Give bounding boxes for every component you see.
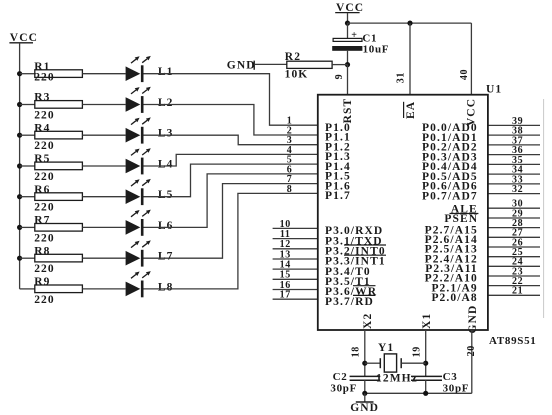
svg-text:21: 21 bbox=[512, 286, 523, 297]
svg-text:18: 18 bbox=[350, 346, 361, 357]
junction dot R2/RST bbox=[345, 62, 350, 67]
svg-text:10K: 10K bbox=[285, 69, 309, 81]
resistor R8 220 bbox=[34, 245, 82, 275]
pin 17 stub (P3.7) bbox=[273, 298, 318, 300]
pin 35 stub (P0.4/AD4) bbox=[488, 163, 540, 165]
wire X2 to Y1 bbox=[365, 362, 381, 364]
LED L6 bbox=[126, 210, 174, 236]
svg-text:220: 220 bbox=[34, 140, 55, 152]
resistor R7 220 bbox=[34, 215, 82, 245]
pin 32 stub (P0.7/AD7) bbox=[488, 193, 540, 195]
junction dot VCC rail row 2 bbox=[17, 102, 22, 107]
U1 pin names P2.7-P2.0 bbox=[425, 224, 478, 304]
wire R1 to LED L1 bbox=[82, 73, 125, 75]
svg-text:C2: C2 bbox=[333, 371, 348, 383]
resistor R9 220 bbox=[34, 276, 82, 306]
wire R9 to LED L8 bbox=[82, 288, 125, 290]
junction dot VCC rail row 7 bbox=[17, 256, 22, 261]
svg-text:31: 31 bbox=[395, 72, 406, 83]
U1 pin names P0.0-P0.7 bbox=[422, 122, 478, 202]
svg-text:220: 220 bbox=[34, 202, 55, 214]
junction dot bottom net / C3 bbox=[423, 391, 428, 396]
svg-text:P0.7/AD7: P0.7/AD7 bbox=[422, 190, 478, 202]
pin 27 stub bbox=[488, 236, 540, 238]
junction dot EA branch bbox=[407, 21, 412, 26]
svg-text:GND: GND bbox=[350, 402, 379, 414]
svg-text:220: 220 bbox=[34, 232, 55, 244]
pin 14 stub (P3.4) bbox=[273, 268, 318, 270]
resistor R6 220 bbox=[34, 184, 82, 214]
pin 30 stub bbox=[488, 207, 540, 209]
wire C2 to bottom net bbox=[364, 380, 366, 393]
wire LED L6 to U1 pin 6 bbox=[144, 174, 318, 228]
IC U1 AT89S51 body bbox=[318, 95, 488, 330]
junction dot X2/crystal bbox=[362, 361, 367, 366]
pin 37 stub (P0.2/AD2) bbox=[488, 144, 540, 146]
svg-text:L5: L5 bbox=[158, 189, 174, 201]
svg-text:R8: R8 bbox=[34, 245, 50, 257]
pin 23 stub bbox=[488, 275, 540, 277]
pin 25 stub bbox=[488, 256, 540, 258]
pin 24 stub bbox=[488, 265, 540, 267]
wire LED L3 to U1 pin 3 bbox=[144, 135, 318, 145]
LED L3 bbox=[126, 117, 174, 143]
capacitor C1 10uF (electrolytic) bbox=[332, 30, 389, 55]
svg-text:RST: RST bbox=[342, 98, 354, 124]
pin 22 stub bbox=[488, 285, 540, 287]
U1 pin name PSEN (active low) bbox=[444, 213, 478, 225]
svg-text:+: + bbox=[351, 30, 357, 41]
wire R3 to LED L2 bbox=[82, 104, 125, 106]
svg-text:8: 8 bbox=[287, 184, 293, 195]
svg-text:R3: R3 bbox=[34, 92, 50, 104]
svg-text:U1: U1 bbox=[486, 84, 502, 96]
svg-text:32: 32 bbox=[512, 184, 523, 195]
svg-text:P3.7/RD: P3.7/RD bbox=[325, 296, 374, 308]
pin 21 stub bbox=[488, 294, 540, 296]
resistor R5 220 bbox=[34, 153, 82, 183]
wire VCC rail to R1 bbox=[20, 73, 35, 75]
wire VCC rail to R8 bbox=[20, 257, 35, 259]
wire VCC rail to R6 bbox=[20, 196, 35, 198]
junction dot bottom net / C2 bbox=[362, 391, 367, 396]
wire VCC top horizontal bbox=[348, 22, 472, 24]
wire R8 to LED L7 bbox=[82, 257, 125, 259]
resistor R4 220 bbox=[34, 122, 82, 152]
wire C1 to RST node bbox=[347, 51, 349, 65]
svg-text:12MHz: 12MHz bbox=[376, 373, 418, 385]
ground symbol GND (bottom) bbox=[350, 393, 379, 414]
svg-text:R6: R6 bbox=[34, 184, 50, 196]
pin 29 stub bbox=[488, 217, 540, 219]
svg-text:30pF: 30pF bbox=[330, 382, 357, 394]
wire C3 to bottom net bbox=[425, 380, 427, 393]
wire GND to R2 bbox=[254, 63, 287, 65]
svg-text:30pF: 30pF bbox=[443, 382, 470, 394]
wire node to U1 pin 9 RST bbox=[347, 65, 349, 95]
svg-text:PSEN: PSEN bbox=[444, 213, 478, 225]
pin 36 stub (P0.3/AD3) bbox=[488, 154, 540, 156]
svg-text:19: 19 bbox=[412, 346, 423, 357]
wire VCC rail to R5 bbox=[20, 165, 35, 167]
pin 34 stub (P0.5/AD5) bbox=[488, 173, 540, 175]
LED L5 bbox=[126, 179, 174, 205]
svg-text:220: 220 bbox=[34, 263, 55, 275]
wire VCC rail to R3 bbox=[20, 104, 35, 106]
svg-text:C3: C3 bbox=[443, 371, 458, 383]
pin 39 stub (P0.0/AD0) bbox=[488, 124, 540, 126]
resistor R3 220 bbox=[34, 92, 82, 122]
LED L2 bbox=[126, 87, 174, 113]
crystal Y1 12MHz bbox=[376, 342, 418, 384]
svg-text:R4: R4 bbox=[34, 122, 50, 134]
svg-text:40: 40 bbox=[459, 69, 470, 80]
svg-text:X2: X2 bbox=[362, 313, 374, 329]
svg-text:P2.0/A8: P2.0/A8 bbox=[431, 292, 477, 304]
wire LED L5 to U1 pin 5 bbox=[144, 164, 318, 197]
svg-text:R2: R2 bbox=[285, 51, 301, 63]
wire U1 X1 down bbox=[425, 330, 427, 376]
svg-text:L1: L1 bbox=[158, 66, 174, 78]
pin 10 stub (P3.0) bbox=[273, 227, 318, 229]
wire VCC rail to R7 bbox=[20, 226, 35, 228]
U1 pin name EA (active low) bbox=[404, 101, 417, 119]
svg-text:P1.7: P1.7 bbox=[325, 190, 351, 202]
ground tap GND (left of R2) bbox=[227, 60, 256, 72]
svg-text:R5: R5 bbox=[34, 153, 50, 165]
wire R4 to LED L3 bbox=[82, 134, 125, 136]
power symbol VCC (top) bbox=[335, 2, 364, 14]
svg-text:L8: L8 bbox=[158, 281, 174, 293]
svg-text:Y1: Y1 bbox=[378, 342, 394, 354]
svg-text:X1: X1 bbox=[421, 313, 433, 329]
wire U1 GND pin 20 down bbox=[471, 330, 473, 393]
wire LED L7 to U1 pin 7 bbox=[144, 184, 318, 259]
wire VCC stub down bbox=[347, 13, 349, 23]
junction dot VCC rail row 3 bbox=[17, 133, 22, 138]
wire VCC rail to R9 bbox=[20, 288, 35, 290]
junction dot VCC rail row 4 bbox=[17, 163, 22, 168]
capacitor C3 30pF bbox=[411, 371, 469, 394]
wire LED L1 to U1 pin 1 bbox=[144, 74, 318, 126]
wire R7 to LED L6 bbox=[82, 226, 125, 228]
wire bottom ground net bbox=[365, 392, 472, 394]
svg-text:220: 220 bbox=[34, 294, 55, 306]
svg-text:L7: L7 bbox=[158, 251, 174, 263]
wire VCC to C1 bbox=[347, 23, 349, 38]
pin 38 stub (P0.1/AD1) bbox=[488, 134, 540, 136]
U1 pin names P3.0-P3.7 bbox=[325, 225, 386, 308]
svg-text:C1: C1 bbox=[362, 32, 377, 44]
svg-text:9: 9 bbox=[334, 74, 345, 80]
wire R5 to LED L4 bbox=[82, 165, 125, 167]
pin 13 stub (P3.3) bbox=[273, 258, 318, 260]
svg-text:20: 20 bbox=[466, 345, 477, 356]
pin 11 stub (P3.1) bbox=[273, 238, 318, 240]
wire R2 to RST node bbox=[332, 64, 347, 66]
svg-text:10uF: 10uF bbox=[363, 44, 390, 56]
LED L8 bbox=[126, 271, 174, 297]
wire R6 to LED L5 bbox=[82, 196, 125, 198]
svg-text:L2: L2 bbox=[158, 97, 174, 109]
LED L1 bbox=[126, 56, 174, 82]
svg-text:220: 220 bbox=[34, 171, 55, 183]
junction dot X1/crystal bbox=[423, 361, 428, 366]
pin 16 stub (P3.6) bbox=[273, 289, 318, 291]
svg-text:R7: R7 bbox=[34, 215, 50, 227]
wire EA to U1 pin 31 bbox=[409, 23, 411, 95]
wire LED L4 to U1 pin 4 bbox=[144, 154, 318, 166]
resistor R1 220 bbox=[34, 61, 82, 83]
svg-text:L3: L3 bbox=[158, 128, 174, 140]
LED L4 bbox=[126, 148, 174, 174]
power symbol VCC (left rail) bbox=[9, 32, 38, 44]
junction dot VCC rail row 5 bbox=[17, 194, 22, 199]
pin 12 stub (P3.2) bbox=[273, 248, 318, 250]
wire Y1 to X1 bbox=[401, 362, 426, 364]
U1 pin names P1.0-P1.7 bbox=[325, 122, 351, 202]
svg-text:L6: L6 bbox=[158, 220, 174, 232]
wire VCC rail vertical bbox=[19, 43, 21, 289]
svg-text:17: 17 bbox=[280, 290, 291, 301]
junction dot VCC/C1 bbox=[345, 21, 350, 26]
wire LED L8 to U1 pin 8 bbox=[144, 193, 318, 289]
svg-text:220: 220 bbox=[34, 71, 55, 83]
pin 26 stub bbox=[488, 246, 540, 248]
svg-text:GND: GND bbox=[467, 305, 479, 334]
svg-text:EA: EA bbox=[405, 101, 417, 119]
svg-text:R9: R9 bbox=[34, 276, 50, 288]
wire VCC rail to R4 bbox=[20, 134, 35, 136]
svg-text:AT89S51: AT89S51 bbox=[489, 335, 536, 347]
faint page edge line (right) bbox=[543, 99, 545, 318]
pin 28 stub bbox=[488, 227, 540, 229]
wire VCC to U1 pin 40 bbox=[470, 23, 472, 95]
resistor R2 10K bbox=[285, 51, 332, 80]
wire U1 X2 down bbox=[364, 330, 366, 376]
LED L7 bbox=[126, 240, 174, 266]
junction dot VCC rail row 6 bbox=[17, 225, 22, 230]
wire LED L2 to U1 pin 2 bbox=[144, 105, 318, 136]
svg-text:GND: GND bbox=[227, 60, 256, 72]
svg-text:220: 220 bbox=[34, 110, 55, 122]
pin 15 stub (P3.5) bbox=[273, 278, 318, 280]
capacitor C2 30pF bbox=[330, 371, 380, 394]
junction dot VCC rail row 1 bbox=[17, 71, 22, 76]
svg-text:L4: L4 bbox=[158, 158, 174, 170]
pin 33 stub (P0.6/AD6) bbox=[488, 183, 540, 185]
